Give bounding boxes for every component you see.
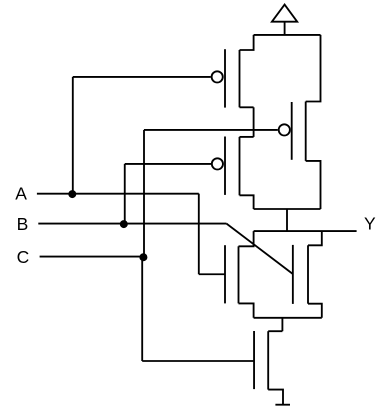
transistor M2 PMOS (gate C) [279, 35, 321, 209]
wire gate of M3 to node B [125, 163, 211, 165]
wire gate of M2 to node C vertical [144, 129, 278, 131]
wire VDD rail [254, 34, 321, 36]
junction dot A [68, 190, 76, 198]
wire output Y line [254, 230, 357, 232]
wire gate of M5 diagonal from node B [227, 224, 293, 274]
junction dot C [139, 253, 147, 261]
wire A up to M1 gate [72, 77, 74, 194]
wire series link M1-M3 [253, 107, 255, 137]
wire node to output Y line [286, 209, 288, 231]
transistor M1 PMOS (gate A) [212, 35, 254, 108]
wire input A [37, 193, 199, 195]
power supply VDD symbol (triangle) [272, 5, 297, 22]
wire VDD stem [284, 22, 286, 35]
junction dot B [120, 220, 128, 228]
wire input B [38, 223, 226, 225]
wire gate of M4 from node A vertical [199, 273, 225, 275]
wire gate of M1 to node A [73, 76, 211, 78]
wire C down to M6 gate [141, 257, 143, 361]
transistor M4 NMOS (gate A) [225, 231, 254, 318]
wire node line to M6 [281, 318, 283, 331]
wire B up to M3 gate [124, 164, 126, 224]
svg-text:Y: Y [364, 213, 376, 233]
wire gate of M6 from node C vertical [142, 360, 254, 362]
transistor M3 PMOS (gate B) [212, 137, 254, 210]
wire A down to M4 gate [198, 194, 200, 275]
wire C up to M2 gate [143, 130, 145, 257]
svg-text:B: B [17, 214, 29, 234]
transistor M6 NMOS (gate C) [254, 331, 283, 405]
wire input C [40, 256, 144, 258]
ground symbol [275, 404, 290, 406]
node PMOS drain line [254, 208, 321, 210]
transistor M5 NMOS (gate B) [293, 231, 322, 318]
node NMOS source line [254, 317, 322, 319]
svg-text:C: C [17, 247, 30, 267]
svg-text:A: A [15, 184, 27, 204]
